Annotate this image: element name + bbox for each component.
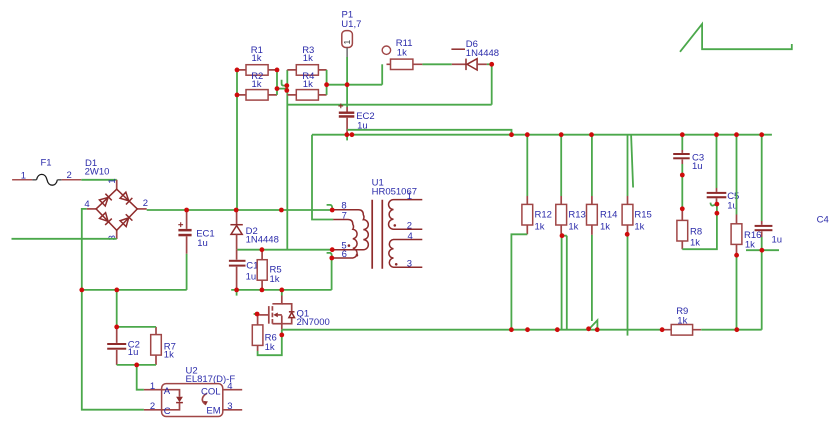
- resistor R2 1k: [237, 71, 277, 100]
- wire bridge pin2 to transformer pin8 (node DC+): [147, 209, 333, 211]
- wire hook at pin8: [327, 205, 333, 208]
- node dot below Q1 source: [279, 333, 284, 338]
- svg-text:1k: 1k: [677, 316, 687, 327]
- svg-text:F1: F1: [41, 158, 52, 169]
- wire R1/R2 right vertical: [276, 70, 278, 95]
- wire R15 long tail crossing bus: [627, 234, 629, 335]
- wire R6 bottom loop to source: [258, 330, 282, 356]
- svg-text:1k: 1k: [535, 222, 545, 233]
- svg-text:3: 3: [407, 259, 412, 270]
- wire R4 node to P1/R11: [327, 84, 383, 86]
- primary winding pins 7-6: [332, 220, 357, 259]
- svg-text:4: 4: [408, 231, 413, 242]
- svg-text:1: 1: [107, 179, 118, 184]
- wire hook at pin6: [327, 253, 332, 256]
- svg-text:2W10: 2W10: [85, 167, 110, 178]
- svg-text:1u: 1u: [772, 235, 783, 246]
- resistor R7 1k: [151, 327, 176, 365]
- svg-text:1k: 1k: [397, 48, 407, 59]
- capacitor EC1 1u: [178, 210, 214, 290]
- svg-text:1u: 1u: [197, 238, 208, 249]
- node dot pin6: [329, 256, 334, 261]
- svg-text:COL: COL: [201, 386, 221, 397]
- diode D6 1N4448: [451, 39, 499, 70]
- svg-text:EM: EM: [206, 406, 220, 417]
- diode D1c bottom-left: [99, 212, 112, 225]
- svg-text:1k: 1k: [745, 239, 755, 250]
- wire top distribution bus: [312, 134, 772, 136]
- svg-text:1: 1: [21, 170, 26, 181]
- wire stub below EC2 junction: [346, 135, 348, 141]
- wire R16 bottom to bus: [736, 255, 738, 330]
- wire C2/R7 bottom link: [117, 364, 156, 366]
- svg-text:1k: 1k: [568, 222, 578, 233]
- node dots top bus: [345, 132, 350, 137]
- node dots R1-R4 cluster: [235, 68, 240, 73]
- diode D1b top-right: [120, 192, 133, 205]
- node wire D2/C1/R5 (clamp node): [237, 249, 332, 251]
- primary winding pins 8-5: [333, 210, 368, 250]
- wire bus left end down to transformer pin7: [312, 135, 333, 220]
- svg-text:1k: 1k: [270, 274, 280, 285]
- svg-text:2N7000: 2N7000: [297, 317, 330, 328]
- wire R3/R4 right vertical: [326, 70, 328, 95]
- svg-text:C: C: [164, 406, 171, 417]
- resistor R13 1k: [556, 135, 586, 236]
- wire bridge pin4 down to U2 pin C: [82, 209, 144, 410]
- wire D6 anode return line: [287, 104, 491, 106]
- svg-text:1k: 1k: [303, 79, 313, 90]
- svg-text:R13: R13: [568, 210, 585, 221]
- wire R14 bottom: [591, 235, 593, 321]
- svg-text:6: 6: [342, 249, 347, 260]
- wire diagonal jog at bus: [588, 320, 597, 330]
- wire EC2 node to bus jog: [347, 130, 511, 135]
- node dots C2/R7: [114, 325, 119, 330]
- resistor R4 1k: [287, 71, 326, 100]
- svg-text:U1,7: U1,7: [341, 19, 361, 30]
- resistor R12 1k: [522, 135, 552, 235]
- svg-text:3: 3: [227, 401, 232, 412]
- svg-text:1k: 1k: [303, 53, 313, 64]
- wire clamp node up to D6 return: [286, 70, 288, 250]
- bridge rectifier D1 2W10: [84, 158, 148, 240]
- wire loose diagonal near R15: [631, 135, 633, 188]
- wire bottom-left bus (DC-): [82, 289, 187, 291]
- svg-text:1u: 1u: [128, 347, 139, 358]
- node dots on DC+ rail: [184, 208, 189, 213]
- LED inside: [162, 390, 180, 397]
- resistor R9 1k: [662, 306, 701, 335]
- secondary winding pins 1-2: [389, 200, 423, 230]
- svg-text:2: 2: [407, 220, 412, 231]
- svg-text:1k: 1k: [600, 222, 610, 233]
- svg-text:1k: 1k: [252, 53, 262, 64]
- wire down to U2 pin1: [137, 365, 144, 390]
- svg-text:C4: C4: [817, 214, 829, 225]
- svg-text:1: 1: [407, 191, 412, 202]
- wire bottom bus (source rail): [282, 329, 662, 331]
- svg-text:R12: R12: [535, 210, 552, 221]
- wire stub below C1 junction: [236, 290, 238, 296]
- wire horizontal at C4 bottom node: [746, 249, 779, 251]
- svg-text:1k: 1k: [252, 79, 262, 90]
- svg-text:2: 2: [143, 198, 148, 209]
- capacitor EC2 1u: [338, 85, 374, 135]
- polarity dots: [348, 244, 351, 247]
- wire R1/R2 left vertical down to DC+ rail: [236, 70, 238, 210]
- capacitor C2 1u: [107, 290, 140, 365]
- resistor R3 1k: [287, 45, 326, 75]
- wire hook at C5: [710, 203, 716, 206]
- resistor R15 1k: [622, 135, 652, 235]
- node dot Q1 gate: [255, 312, 260, 317]
- svg-text:2: 2: [67, 170, 72, 181]
- phototransistor: [202, 393, 207, 404]
- sawtooth waveform drawing: [680, 24, 792, 52]
- svg-text:7: 7: [342, 211, 347, 222]
- core: [372, 200, 382, 269]
- diode D1d bottom-right: [120, 214, 133, 227]
- wire up to R11: [381, 64, 383, 84]
- svg-text:A: A: [164, 386, 171, 397]
- transistor Q1 2N7000: [259, 290, 330, 330]
- capacitor C3 1u: [673, 135, 704, 209]
- capacitor C1 1u: [229, 250, 259, 290]
- node dots misc right: [560, 233, 565, 238]
- resistor R11 1k: [382, 38, 422, 69]
- wire bridge pin3 AC return: [12, 238, 117, 240]
- wire pin6 down to DC- bus: [331, 258, 333, 290]
- wire R13 bottom double vertical: [562, 236, 567, 330]
- fuse F1: [12, 158, 81, 186]
- resistor R1 1k: [237, 45, 277, 75]
- wire D6 anode down: [491, 64, 493, 104]
- resistor R8 1k: [677, 209, 702, 249]
- svg-text:1k: 1k: [265, 342, 275, 353]
- wire hook at R2/R4 node: [282, 80, 287, 86]
- node dot D6 anode: [489, 62, 494, 67]
- wire link between pairs: [277, 88, 287, 90]
- svg-text:2: 2: [150, 401, 155, 412]
- wire R9 right to C4 corner: [701, 329, 762, 331]
- testpoint P1 U1,7: [341, 10, 361, 85]
- svg-text:R14: R14: [600, 210, 617, 221]
- svg-text:1N4448: 1N4448: [466, 48, 499, 59]
- wire R12 bottom jog to bus: [511, 234, 527, 329]
- wire fuse to bridge: [81, 179, 116, 181]
- node dots DC- bus: [79, 288, 84, 293]
- svg-text:1: 1: [342, 40, 352, 45]
- wire mid bottom bus (DC-) right part: [231, 289, 331, 291]
- resistor R5 1k: [257, 250, 281, 290]
- svg-text:1N4448: 1N4448: [246, 235, 279, 246]
- diode D2 1N4448: [230, 210, 278, 250]
- wire C2/R7 top link: [117, 326, 156, 328]
- node dot P1: [345, 82, 350, 87]
- diode D1a top-left: [99, 194, 112, 207]
- wire R8 bottom to C5 bottom: [682, 213, 717, 249]
- svg-text:1: 1: [150, 381, 155, 392]
- capacitor C4 1u: [755, 135, 829, 330]
- svg-text:1k: 1k: [164, 350, 174, 361]
- node dots bottom bus: [509, 327, 514, 332]
- optocoupler U2 EL817(D)-F: [144, 365, 242, 417]
- svg-text:1k: 1k: [690, 238, 700, 249]
- svg-text:1u: 1u: [692, 161, 703, 172]
- svg-text:4: 4: [227, 381, 232, 392]
- svg-text:1u: 1u: [246, 272, 257, 283]
- node dots clamp line: [260, 247, 265, 252]
- secondary winding pins 4-3: [389, 240, 422, 268]
- svg-text:1k: 1k: [634, 222, 644, 233]
- wire gate stub: [254, 313, 260, 315]
- svg-text:R15: R15: [634, 210, 651, 221]
- wire R11 to D6: [422, 63, 451, 65]
- resistor R14 1k: [587, 135, 618, 235]
- resistor R16 1k: [731, 135, 761, 256]
- svg-text:R8: R8: [690, 226, 702, 237]
- capacitor C5 1u: [707, 135, 740, 214]
- transformer U1 HR051067: [332, 178, 422, 270]
- resistor R6 1k: [252, 314, 276, 353]
